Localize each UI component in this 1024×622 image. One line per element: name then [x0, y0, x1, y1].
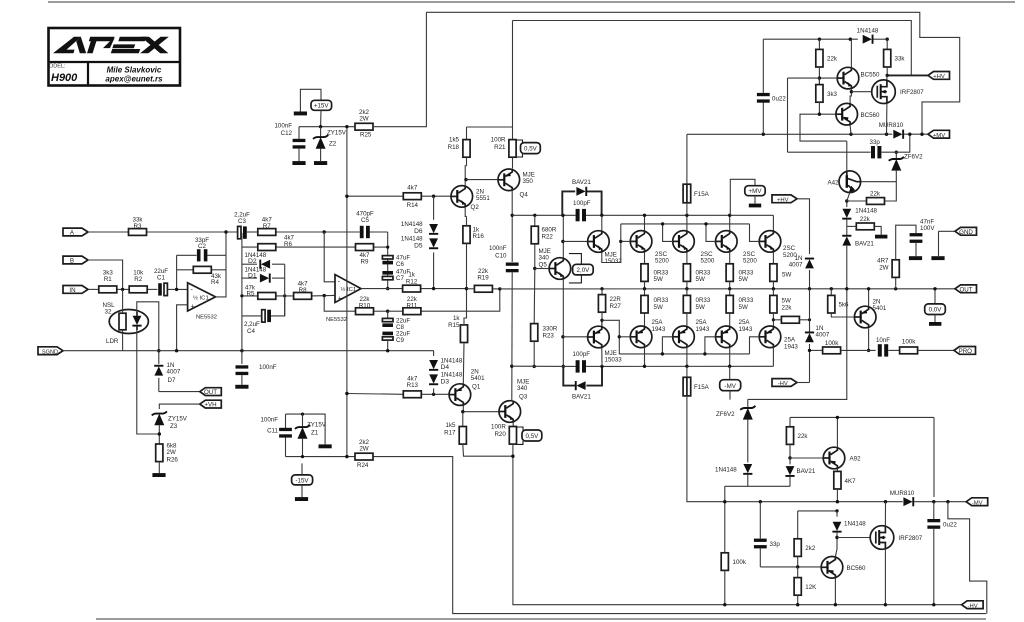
resistor 22k top: [816, 39, 838, 91]
svg-text:LDR: LDR: [106, 338, 119, 345]
capacitor C9 22uF: [382, 330, 410, 350]
svg-text:R27: R27: [610, 303, 622, 310]
svg-text:5W: 5W: [654, 304, 663, 311]
svg-text:Q2: Q2: [471, 204, 480, 211]
wire lower base drops: [618, 335, 621, 338]
svg-text:A92: A92: [850, 456, 862, 463]
resistor lower 0R33 bank c: [726, 289, 754, 326]
svg-text:R26: R26: [167, 457, 179, 464]
tag -HV mid: [772, 379, 810, 388]
wire PNP base rail feed: [602, 320, 750, 354]
wire Q6 emitter to OUT rail: [868, 289, 870, 306]
label 0,0V: [925, 287, 946, 326]
wire BC560 base loop: [800, 114, 847, 141]
capacitor C5 470pF: [356, 211, 374, 239]
svg-text:R18: R18: [448, 144, 460, 151]
zener ZF6V2 upper: [889, 151, 923, 182]
svg-text:1N4148: 1N4148: [855, 208, 877, 215]
left rail of input network: [241, 233, 243, 351]
svg-text:½ IC1: ½ IC1: [193, 294, 209, 301]
wire LED cathode to Z3 node: [137, 326, 160, 434]
svg-text:OUT: OUT: [204, 389, 217, 396]
capacitor 33p lower: [754, 500, 780, 567]
wire BC550 collector: [850, 39, 852, 67]
wire A92 collector up: [836, 417, 838, 447]
diode BAV21 upper: [562, 179, 601, 215]
resistor R15 1k: [448, 315, 467, 384]
svg-text:100nF: 100nF: [259, 364, 277, 371]
svg-text:OUT: OUT: [959, 286, 972, 293]
svg-text:C1: C1: [157, 275, 165, 282]
svg-text:D2: D2: [248, 258, 257, 265]
node R7-C5 line junction: [323, 230, 326, 233]
wire Q4 base: [466, 179, 498, 181]
wire A line: [88, 231, 129, 233]
wire C3 to R7 to C5 line: [247, 231, 258, 233]
resistor 100k PRO a: [823, 340, 876, 354]
svg-text:22k: 22k: [782, 304, 793, 311]
wire lower rail: [512, 365, 576, 367]
diode 1N4148 lower chain: [715, 464, 752, 486]
svg-text:2W: 2W: [167, 449, 176, 456]
svg-text:Q1: Q1: [472, 383, 481, 390]
transistor Qf 2SA1943: [673, 319, 710, 347]
wire A42 base up: [846, 141, 848, 171]
capacitor C8 22uF: [382, 311, 410, 331]
diode MUR810 lower: [890, 490, 966, 506]
svg-text:2W: 2W: [359, 446, 368, 453]
wire Q5 base: [535, 268, 549, 270]
supply box +MV upper: [730, 179, 765, 215]
wire R18 R21 top rail: [467, 21, 513, 128]
svg-text:22k: 22k: [870, 191, 881, 198]
label 0,5V upper: [516, 140, 540, 157]
svg-text:33p: 33p: [770, 541, 781, 548]
svg-text:Z1: Z1: [311, 430, 319, 437]
svg-text:680R: 680R: [542, 227, 557, 234]
diode 1N4007 lower clamp: [805, 289, 830, 383]
label 2,0V: [569, 254, 593, 283]
capacitor C11 100nF: [260, 414, 291, 457]
zener ZF6V2 lower: [716, 399, 755, 462]
svg-text:1k5: 1k5: [449, 136, 460, 143]
resistor R23 330R: [531, 269, 558, 367]
svg-text:4K7: 4K7: [845, 478, 857, 485]
svg-text:R8: R8: [299, 287, 307, 294]
zener Z3 ZY15V: [152, 411, 188, 444]
resistor 22k output sense: [772, 316, 811, 323]
diode BAV21 lower block: [785, 456, 815, 486]
svg-text:NE5532: NE5532: [196, 315, 217, 321]
svg-text:+VH: +VH: [204, 402, 216, 409]
wire lower collector drops: [644, 348, 646, 367]
resistor R14 4k7: [403, 184, 421, 208]
resistor 100k PRO b: [900, 338, 954, 353]
svg-text:R5: R5: [247, 290, 255, 297]
diode D7 1N4007: [154, 362, 181, 392]
svg-text:2W: 2W: [359, 116, 368, 123]
svg-text:0,5V: 0,5V: [524, 146, 538, 153]
svg-text:5200: 5200: [655, 258, 669, 265]
diode 1N4148 gate: [832, 511, 866, 538]
border top line: [48, 1, 1015, 3]
capacitor C7 47uF: [382, 268, 410, 282]
svg-text:GND: GND: [959, 229, 973, 236]
resistor R19 22k: [467, 268, 500, 292]
svg-text:-HV: -HV: [778, 381, 788, 387]
tag -MV right: [966, 498, 988, 506]
svg-text:100nF: 100nF: [489, 245, 507, 252]
svg-text:1943: 1943: [739, 326, 753, 333]
diode 1N4148 top: [857, 28, 888, 44]
svg-text:NE5532: NE5532: [326, 317, 347, 323]
capacitor C2 33pF: [177, 237, 226, 261]
resistor R21 100R: [491, 127, 516, 169]
svg-text:1N4148: 1N4148: [715, 467, 737, 474]
svg-text:R17: R17: [444, 430, 456, 437]
tag -HV right: [962, 601, 984, 610]
wire collector rail verticals: [644, 215, 646, 230]
resistor R13 4k7: [403, 376, 421, 398]
transistor Qh 2SA1943: [759, 326, 798, 350]
svg-text:100R: 100R: [491, 423, 506, 430]
svg-text:5W: 5W: [696, 304, 705, 311]
wire BC560 lower collector: [835, 538, 837, 557]
resistor R18 1k5: [448, 127, 470, 166]
capacitor 100pF upper: [573, 200, 591, 221]
svg-text:R12: R12: [406, 278, 418, 285]
capacitor C10 100nF: [489, 245, 519, 400]
svg-text:100k: 100k: [902, 338, 916, 345]
resistor R12 1k: [403, 272, 467, 292]
svg-text:0u22: 0u22: [772, 95, 786, 102]
svg-text:15032: 15032: [605, 258, 623, 265]
resistor R1 3k3: [99, 270, 117, 293]
resistor lower 0R33 bank d: [770, 289, 793, 326]
node Z3-R26-LED junction: [158, 432, 161, 435]
svg-text:+: +: [338, 295, 342, 302]
svg-text:5k6: 5k6: [839, 302, 850, 309]
wire net +HV top distribution: [513, 21, 912, 76]
node R19 OUT rail corner: [498, 287, 501, 290]
wire A42 emitter chain: [847, 193, 850, 202]
transistor BC560: [836, 103, 880, 125]
diode D6 1N4148: [401, 221, 438, 235]
wire R13 line to Q1 base: [347, 393, 403, 396]
wire LDR top: [122, 289, 124, 313]
svg-text:ZY15V: ZY15V: [168, 416, 188, 423]
resistor upper 0R33 bank c: [726, 252, 754, 289]
zener Z1 ZY15V: [295, 413, 327, 457]
svg-text:2k2: 2k2: [805, 545, 816, 552]
svg-text:C10: C10: [495, 252, 507, 259]
resistor R7 4k7: [258, 217, 276, 236]
svg-text:5W: 5W: [739, 276, 748, 283]
resistor R6 4k7: [242, 234, 356, 250]
svg-text:330R: 330R: [543, 325, 558, 332]
svg-text:C4: C4: [247, 328, 255, 335]
svg-text:R6: R6: [284, 241, 292, 248]
svg-text:0,0V: 0,0V: [929, 307, 943, 314]
node OUT rail joints: [643, 287, 646, 290]
wire MJE15033 emitter to R27 node: [601, 320, 603, 326]
transistor Q6 2N5401 protection: [854, 299, 886, 328]
svg-text:H900: H900: [51, 72, 78, 84]
node base rail taps upper: [619, 240, 622, 243]
capacitor 100nF at SGND: [235, 349, 276, 389]
wire Q1 collector to Q3 base: [463, 405, 499, 411]
svg-text:100nF: 100nF: [274, 123, 292, 130]
svg-text:R1: R1: [104, 276, 112, 283]
zener Z2 ZY15V: [313, 125, 347, 165]
node op-amp2 output: [386, 287, 389, 290]
resistor R9 4k7: [356, 244, 388, 266]
tag GND: [931, 227, 976, 260]
transistor A92: [823, 447, 861, 469]
svg-text:33k: 33k: [895, 56, 906, 63]
svg-text:-MV: -MV: [725, 383, 737, 390]
svg-text:BC560: BC560: [847, 565, 866, 572]
svg-text:R19: R19: [477, 275, 489, 282]
optocoupler NSL32: [103, 302, 149, 345]
diode D2 1N4148: [242, 252, 285, 269]
title block frame: [49, 28, 181, 86]
svg-text:BC560: BC560: [861, 112, 880, 119]
svg-text:F15A: F15A: [694, 191, 710, 198]
svg-text:4R7: 4R7: [877, 257, 889, 264]
svg-text:0,5V: 0,5V: [526, 433, 540, 440]
wire MJE15032 emitter to base rail: [602, 224, 621, 263]
resistor R10 22k: [356, 296, 388, 315]
wire LED anode loop to D7 node: [137, 302, 159, 364]
svg-text:A42: A42: [827, 179, 839, 186]
svg-text:ZF6V2: ZF6V2: [904, 153, 923, 160]
supply box -MV lower: [720, 366, 741, 399]
wire IRF gate: [851, 91, 871, 93]
resistor R25 2k2 2W: [355, 12, 426, 138]
wire plus junction down to R10: [324, 296, 355, 312]
wire MJE15033 collector: [601, 348, 603, 367]
diode BAV21 sense: [842, 235, 874, 248]
svg-text:4007: 4007: [789, 261, 803, 268]
resistor upper 0R33 bank b: [683, 252, 711, 289]
svg-text:C11: C11: [267, 428, 278, 435]
resistor R2 10k: [129, 270, 147, 293]
wire BC550 emitter node: [850, 89, 851, 104]
wire BC560 lower emitter: [834, 578, 836, 605]
wire MJE15033 base: [563, 336, 588, 338]
svg-text:1N4148: 1N4148: [857, 28, 879, 35]
resistor lower 0R33 bank b: [683, 289, 711, 326]
svg-text:22k: 22k: [798, 433, 809, 440]
svg-text:B: B: [70, 258, 74, 265]
svg-text:ZY15V: ZY15V: [307, 422, 327, 429]
tag +HV mid: [772, 195, 810, 254]
svg-text:ZF6V2: ZF6V2: [716, 411, 735, 418]
svg-text:5W: 5W: [654, 276, 663, 283]
capacitor C1 22uF: [154, 268, 168, 296]
svg-text:+HV: +HV: [777, 197, 789, 203]
svg-text:340: 340: [517, 385, 528, 392]
transistor U3 MJE15033: [588, 326, 623, 363]
resistor R16 1k: [463, 216, 485, 316]
wire PRO line: [810, 349, 823, 351]
svg-text:BC550: BC550: [861, 71, 880, 78]
svg-text:+15V: +15V: [314, 103, 329, 110]
svg-text:R14: R14: [407, 202, 419, 209]
svg-text:F15A: F15A: [694, 384, 710, 391]
svg-text:D3: D3: [441, 378, 450, 385]
wire Q2 collector up to R18: [465, 166, 466, 186]
wire upper rail to collector rail: [602, 214, 774, 216]
svg-text:+: +: [191, 304, 195, 311]
svg-text:2W: 2W: [879, 264, 888, 271]
svg-text:100V: 100V: [920, 225, 935, 232]
wire IN line: [88, 288, 99, 290]
wire junction down to IC1b minus: [324, 232, 335, 282]
border bottom line: [96, 618, 986, 620]
wire Q6 collector down: [868, 328, 870, 350]
svg-text:1N4148: 1N4148: [401, 235, 423, 242]
resistor 5k6: [828, 287, 855, 317]
wire IRF source to +MV: [886, 104, 888, 135]
wire staircase to -MV: [948, 502, 987, 614]
svg-text:2,2uF: 2,2uF: [244, 321, 260, 328]
supply -15V box: [292, 463, 313, 501]
svg-text:IN: IN: [69, 287, 75, 294]
label 0,5V lower: [517, 427, 542, 444]
tag +MV right: [928, 130, 950, 139]
wire OUT rail: [500, 288, 955, 290]
svg-text:1N4148: 1N4148: [844, 521, 866, 528]
svg-text:C6: C6: [396, 261, 404, 268]
svg-text:R2: R2: [134, 276, 142, 283]
wire C11 Z1 top link: [286, 414, 326, 444]
svg-text:+MV: +MV: [933, 133, 945, 139]
wire IRF drain to +HV: [886, 75, 888, 80]
svg-text:Q4: Q4: [520, 192, 529, 199]
wire +HV heavy segment: [887, 74, 929, 76]
node drive mid junction: [465, 287, 468, 290]
resistor 12K: [794, 567, 817, 605]
resistor R3 33k: [129, 217, 147, 236]
wire Qd base drop: [750, 224, 760, 242]
wire upper drive line y215: [512, 214, 575, 216]
svg-text:Q3: Q3: [519, 393, 528, 400]
node Q4 base junction: [464, 178, 467, 181]
svg-text:C2: C2: [198, 243, 206, 250]
resistor 3k3: [816, 78, 838, 114]
svg-text:33p: 33p: [870, 139, 881, 146]
resistor upper 0R33 bank a: [641, 252, 669, 289]
transistor Qd 2SC5200: [759, 231, 797, 259]
resistor R11 22k: [388, 289, 500, 315]
svg-text:R25: R25: [360, 132, 372, 139]
wire Qc base drop: [706, 224, 716, 242]
svg-text:+MV: +MV: [749, 188, 763, 195]
wire BC550 base from 22k: [819, 77, 837, 79]
transistor Qe 2SA1943: [630, 319, 666, 347]
svg-text:C3: C3: [238, 218, 246, 225]
svg-text:R3: R3: [134, 223, 142, 230]
fuse F15A lower: [683, 366, 903, 501]
resistor R20 100R: [491, 423, 962, 604]
svg-text:1k5: 1k5: [446, 422, 457, 429]
svg-text:D5: D5: [414, 242, 423, 249]
svg-text:apex@eunet.rs: apex@eunet.rs: [105, 75, 163, 84]
ground below R26: [152, 473, 165, 477]
svg-text:R20: R20: [494, 431, 506, 438]
svg-text:Z3: Z3: [170, 423, 178, 430]
diode D1 1N4148: [242, 266, 285, 282]
diode MUR810 upper: [879, 122, 928, 139]
tag SGND: [38, 347, 63, 355]
svg-text:22R: 22R: [610, 296, 622, 303]
svg-text:100pF: 100pF: [573, 351, 591, 358]
transistor Q1 2N5401: [449, 369, 485, 406]
capacitor 47nF 100V: [909, 218, 935, 260]
svg-text:R15: R15: [448, 322, 460, 329]
op-amp U1B half IC1: [326, 275, 361, 323]
wire SGND rail: [63, 350, 434, 352]
svg-text:D4: D4: [441, 364, 450, 371]
node R14 D6 junction: [432, 195, 435, 198]
resistor lower 0R33 bank a: [641, 289, 669, 326]
svg-text:5401: 5401: [873, 305, 887, 312]
wire net +MV top distribution: [426, 12, 959, 134]
svg-text:5200: 5200: [701, 258, 715, 265]
svg-text:C12: C12: [281, 130, 293, 137]
diode D5 1N4148: [401, 235, 438, 249]
diode D3 1N4148: [429, 372, 463, 386]
svg-text:-HV: -HV: [968, 603, 978, 609]
svg-text:R22: R22: [542, 234, 554, 241]
svg-text:15033: 15033: [605, 357, 623, 364]
wire NPN base rail: [621, 223, 750, 225]
tag IN: [63, 286, 88, 295]
svg-text:4k7: 4k7: [407, 184, 418, 191]
svg-text:BAV21: BAV21: [797, 468, 816, 475]
svg-text:2,0V: 2,0V: [577, 267, 591, 274]
node Q5 base junction: [533, 267, 536, 270]
op-amp U1A half IC1: [188, 283, 217, 321]
wire Q4 collector down C10 chain: [511, 191, 513, 262]
diode 1N4148 A42: [842, 201, 877, 226]
svg-text:ODEL:: ODEL:: [49, 64, 66, 70]
capacitor 0u22 upper: [757, 39, 786, 134]
wire Q5 collector up: [562, 215, 564, 257]
svg-text:MUR810: MUR810: [879, 122, 904, 129]
resistor R24 2k2 2W: [355, 439, 373, 469]
svg-text:R13: R13: [407, 382, 419, 389]
resistor R22 680R: [531, 214, 557, 269]
capacitor C12 100nF: [274, 123, 305, 165]
wire +15V rail: [299, 126, 355, 128]
diode BAV21 lower: [563, 366, 602, 400]
wire A92 block right down: [933, 417, 935, 497]
svg-text:C7: C7: [396, 275, 404, 282]
wire Q2 emitter to R16: [465, 207, 466, 216]
svg-text:PRO: PRO: [959, 348, 973, 355]
svg-text:22k: 22k: [827, 56, 838, 63]
svg-text:R24: R24: [357, 462, 369, 469]
svg-text:R9: R9: [361, 258, 369, 265]
transistor Qc 2SC5200: [716, 231, 758, 265]
svg-text:3k3: 3k3: [827, 91, 838, 98]
wire C5-R9 right rail down: [387, 232, 389, 289]
diode 1N4007 upper clamp: [789, 255, 814, 289]
resistor 22k A42 emitter: [847, 182, 897, 205]
